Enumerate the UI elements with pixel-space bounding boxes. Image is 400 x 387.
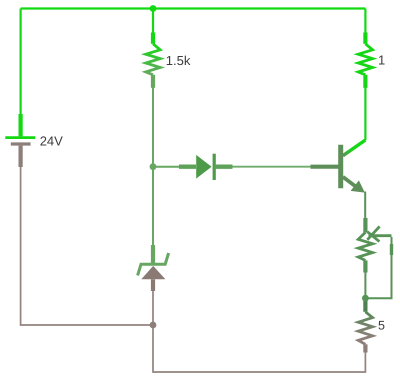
svg-text:5: 5 — [378, 319, 385, 333]
svg-text:24V: 24V — [40, 134, 63, 149]
svg-text:1.5k: 1.5k — [166, 53, 191, 68]
svg-text:1: 1 — [378, 53, 385, 68]
